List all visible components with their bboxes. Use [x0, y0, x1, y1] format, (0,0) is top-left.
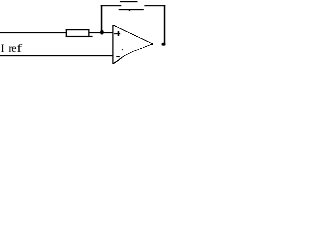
wire: vertical feedback riser from node A: [101, 5, 103, 32]
op-amp U1 left edge: [112, 25, 114, 64]
op-amp U1 non-inverting input marker (+): [114, 31, 120, 36]
wire: top feedback run, left of capacitor C1: [101, 5, 122, 6]
op-amp U1 top-left corner stub: [112, 25, 115, 26]
wire: right vertical drop to output node B: [164, 5, 165, 44]
op-amp U1 inverting input marker (-): [116, 56, 120, 57]
op-amp U1 top edge (stepped scan line): [113, 25, 153, 44]
op-amp U1 bottom-left corner stub: [112, 63, 114, 64]
wire: top feedback run, right of capacitor C1: [144, 5, 165, 6]
op-amp U1 bottom edge (stepped scan line): [113, 44, 154, 64]
wire: I ref bottom rail from left edge to inverting input: [0, 55, 113, 56]
svg-text:f: f: [16, 42, 22, 55]
speck artifact inside op-amp near inverting input: [122, 49, 123, 50]
label: I ref: [1, 42, 23, 55]
node B: output junction dot: [161, 43, 165, 46]
wire: I ref top rail from left edge to resistor R1: [0, 32, 66, 33]
resistor R1: [66, 29, 93, 37]
svg-text:I: I: [1, 42, 5, 55]
node A: feedback tap junction dot: [100, 30, 104, 35]
capacitor C1 (horizontal plates, scanned): [119, 1, 144, 11]
wire: resistor R1 to op-amp non-inverting input: [89, 32, 113, 33]
